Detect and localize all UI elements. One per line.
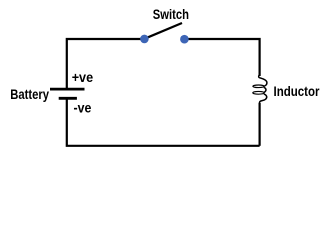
battery B1 top plate (+) (50, 88, 85, 91)
svg-text:Battery: Battery (10, 86, 49, 102)
svg-text:Switch: Switch (153, 6, 189, 22)
svg-text:-ve: -ve (74, 100, 92, 116)
svg-text:Inductor: Inductor (274, 83, 320, 99)
switch S1 right contact node (180, 35, 189, 44)
wire top-left and left upper segment to battery (67, 39, 145, 89)
wire top-right segment from switch to inductor branch (184, 39, 259, 76)
wire left lower segment and bottom wire (67, 98, 260, 146)
switch S1 lever (open) (144, 23, 182, 39)
svg-text:+ve: +ve (72, 69, 94, 85)
switch S1 left contact node (140, 35, 149, 44)
wire right lower segment from inductor to bottom (259, 103, 261, 146)
battery B1 bottom plate (-) (59, 97, 77, 100)
inductor L1 coil (253, 75, 267, 104)
